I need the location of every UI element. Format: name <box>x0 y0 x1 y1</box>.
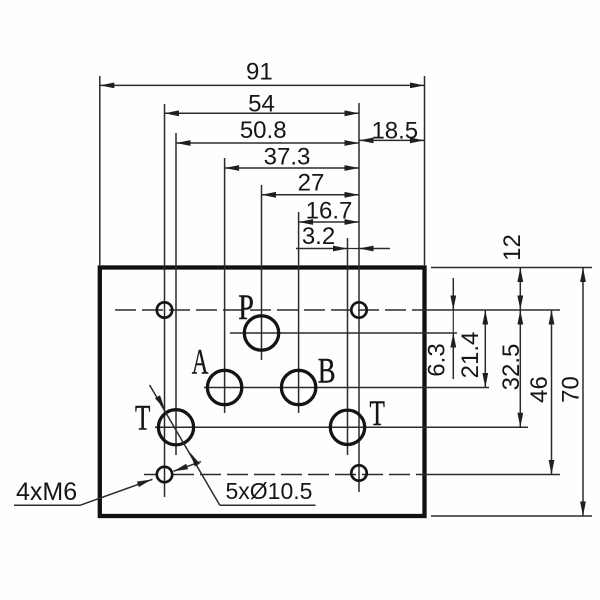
dimension 37.3 <box>225 143 359 171</box>
svg-text:46: 46 <box>526 376 553 403</box>
callout 5xO10.5 text <box>226 478 313 504</box>
port label T right <box>370 392 385 433</box>
extension/centerline B column <box>298 212 300 413</box>
extension/centerline T right column <box>347 238 349 455</box>
dimension 91 <box>100 58 425 88</box>
dimension 27 <box>262 169 360 197</box>
extension line right plate edge <box>424 76 426 265</box>
hole A Ø10.5 <box>207 370 241 404</box>
svg-text:50.8: 50.8 <box>240 117 287 144</box>
extension/centerline P column <box>261 185 263 360</box>
svg-text:A: A <box>192 342 209 382</box>
hole M6 bottom-left <box>157 467 172 482</box>
port label T left <box>135 397 150 438</box>
hole M6 bottom-right <box>351 465 366 480</box>
svg-text:18.5: 18.5 <box>371 117 418 144</box>
svg-text:12: 12 <box>499 234 526 261</box>
callout 4xM6 leader <box>14 462 201 506</box>
callout 5xO10.5 leader <box>150 385 316 505</box>
centerline T row <box>155 426 528 428</box>
extension line top edge right <box>431 267 592 269</box>
svg-text:91: 91 <box>246 58 273 85</box>
dimension 12 <box>499 234 526 310</box>
svg-text:54: 54 <box>248 91 275 118</box>
callout 4xM6 text <box>16 478 77 506</box>
dimension 6.3 <box>424 278 457 379</box>
hole T left Ø10.5 <box>158 410 193 445</box>
dimension 21.4 <box>457 310 488 388</box>
svg-text:T: T <box>370 392 385 433</box>
svg-text:5xØ10.5: 5xØ10.5 <box>226 478 313 504</box>
hole B Ø10.5 <box>281 370 315 404</box>
extension/centerline M6 left column <box>164 104 166 497</box>
svg-text:21.4: 21.4 <box>457 332 484 379</box>
port label A <box>192 342 209 382</box>
svg-text:16.7: 16.7 <box>306 197 353 224</box>
centerline M6 top row dashed <box>115 309 560 311</box>
svg-text:3.2: 3.2 <box>302 223 335 250</box>
dimension 18.5 <box>359 117 425 144</box>
extension line left plate edge <box>99 76 101 265</box>
dimension 50.8 <box>176 117 359 146</box>
dimension 70 <box>558 268 586 517</box>
svg-text:4xM6: 4xM6 <box>16 478 77 506</box>
dimension 16.7 <box>299 197 359 225</box>
extension/centerline T left column <box>175 133 177 455</box>
svg-text:T: T <box>135 397 150 438</box>
svg-text:70: 70 <box>558 376 585 403</box>
hole T right Ø10.5 <box>330 410 364 444</box>
dimension 54 <box>165 91 360 118</box>
hole P Ø10.5 <box>244 316 278 350</box>
dimension 46 <box>526 310 554 475</box>
port label B <box>318 351 336 391</box>
dimension 32.5 <box>498 310 525 427</box>
extension/centerline M6 right column <box>358 103 360 492</box>
extension/centerline A column <box>224 158 226 413</box>
svg-text:27: 27 <box>298 169 325 196</box>
svg-text:32.5: 32.5 <box>498 344 525 391</box>
centerline M6 bottom row dashed <box>144 474 560 476</box>
svg-text:P: P <box>238 287 254 327</box>
svg-text:B: B <box>318 351 336 391</box>
centerline A-B row <box>204 387 489 389</box>
extension line bottom edge right <box>431 515 592 517</box>
svg-text:6.3: 6.3 <box>424 343 451 376</box>
centerline P row <box>230 332 457 334</box>
hole M6 top-right <box>351 302 366 317</box>
svg-text:37.3: 37.3 <box>264 143 311 170</box>
plate outline <box>100 268 425 517</box>
dimension 3.2 <box>296 223 390 252</box>
hole M6 top-left <box>157 302 172 317</box>
port label P <box>238 287 254 327</box>
